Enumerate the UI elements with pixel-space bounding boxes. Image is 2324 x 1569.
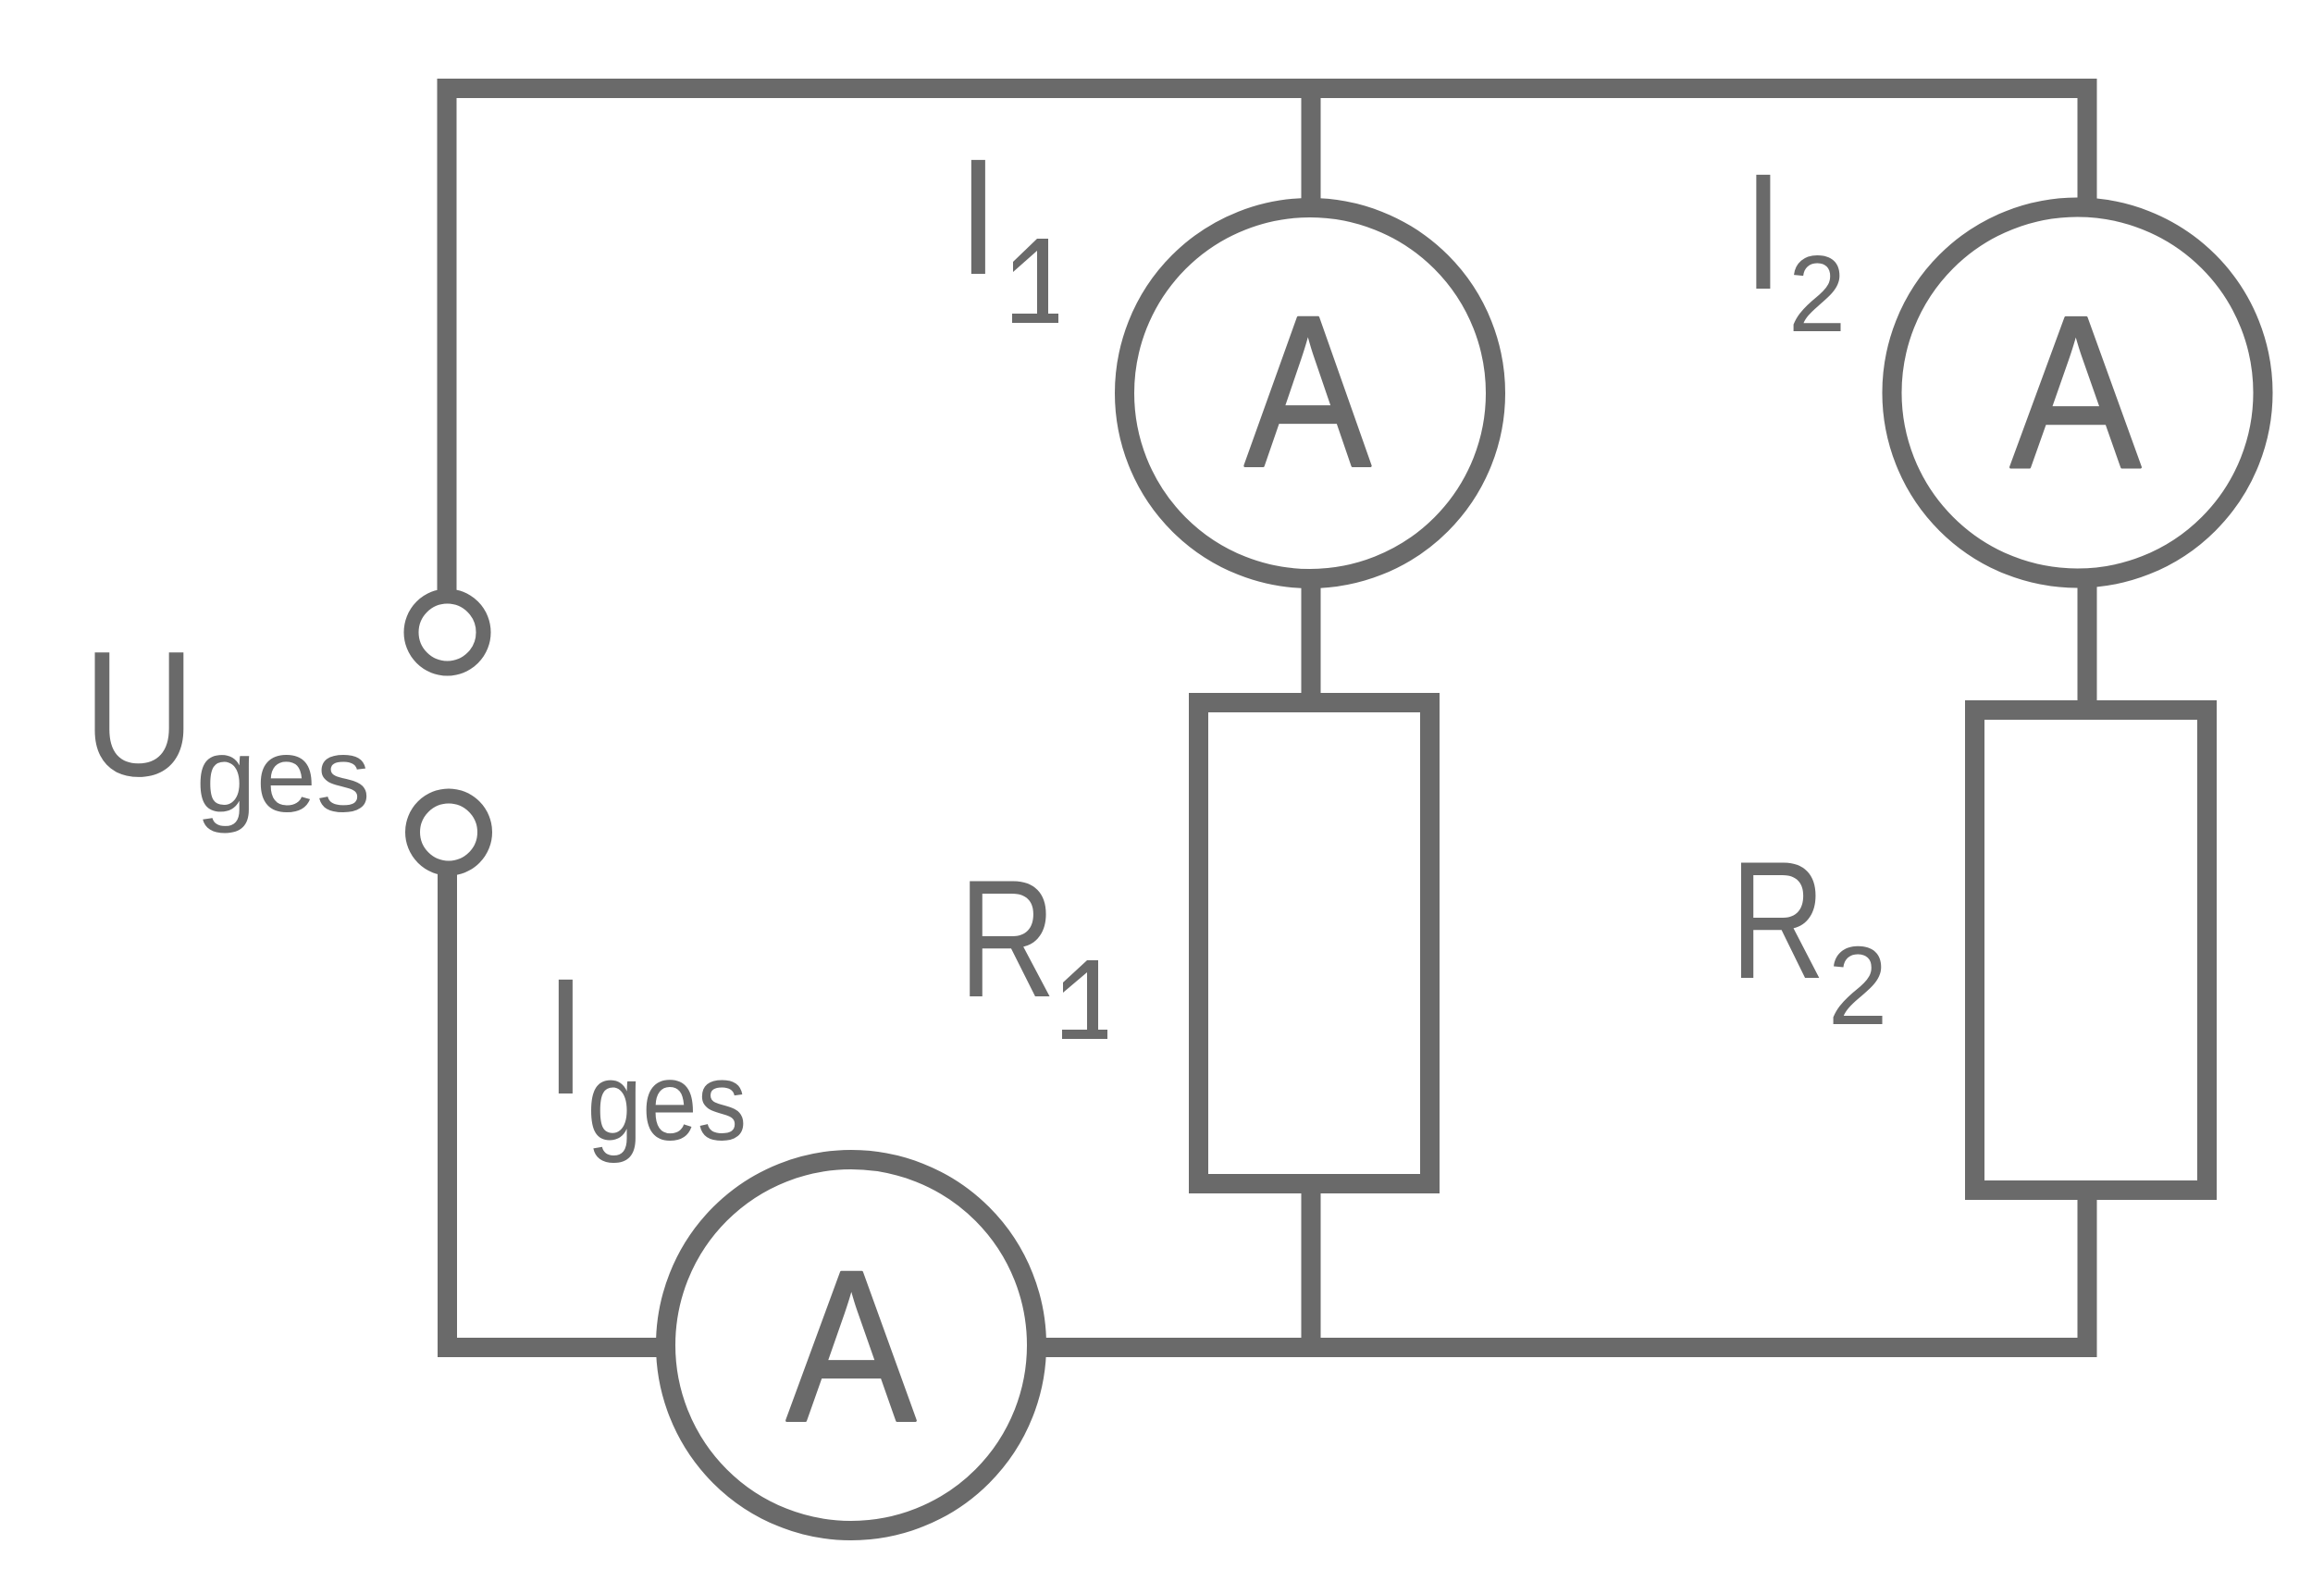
wire: middle branch through ammeter A1 and resistor R1 (1302, 89, 1321, 1348)
svg-text:U: U (83, 614, 196, 813)
label Uges (total voltage across terminals) (83, 614, 371, 834)
svg-text:A: A (2010, 272, 2141, 514)
svg-text:R: R (958, 845, 1056, 1032)
terminal: upper supply terminal (412, 597, 484, 669)
svg-text:2: 2 (1788, 234, 1846, 355)
svg-text:A: A (786, 1225, 916, 1466)
resistor R1 (1199, 703, 1430, 1184)
label I1 (current through R1) (958, 125, 1058, 323)
label I2 (current through R2) (1743, 140, 1847, 354)
ammeter A3 (reads Iges, bottom) (666, 1160, 1037, 1531)
svg-text:2: 2 (1828, 924, 1888, 1049)
svg-text:I: I (1743, 140, 1785, 325)
wire: outer loop (left rail from upper terminal, top bus, right rail, bottom bus, up to lower terminal) (447, 89, 2087, 1348)
svg-text:I: I (545, 945, 587, 1130)
svg-text:R: R (1730, 828, 1825, 1014)
svg-text:ges: ges (587, 1040, 748, 1164)
ammeter A2 (reads I2) (1892, 207, 2263, 578)
resistor R2 (1975, 710, 2207, 1191)
label Iges (total current) (545, 945, 747, 1164)
svg-text:I: I (958, 125, 999, 310)
label R1 (resistor designator) (958, 845, 1107, 1039)
label R2 (resistor designator) (1730, 828, 1887, 1049)
svg-text:A: A (1244, 272, 1370, 512)
terminal: lower supply terminal (413, 797, 485, 869)
svg-text:ges: ges (196, 718, 371, 834)
ammeter A1 (reads I1) (1125, 208, 1496, 579)
